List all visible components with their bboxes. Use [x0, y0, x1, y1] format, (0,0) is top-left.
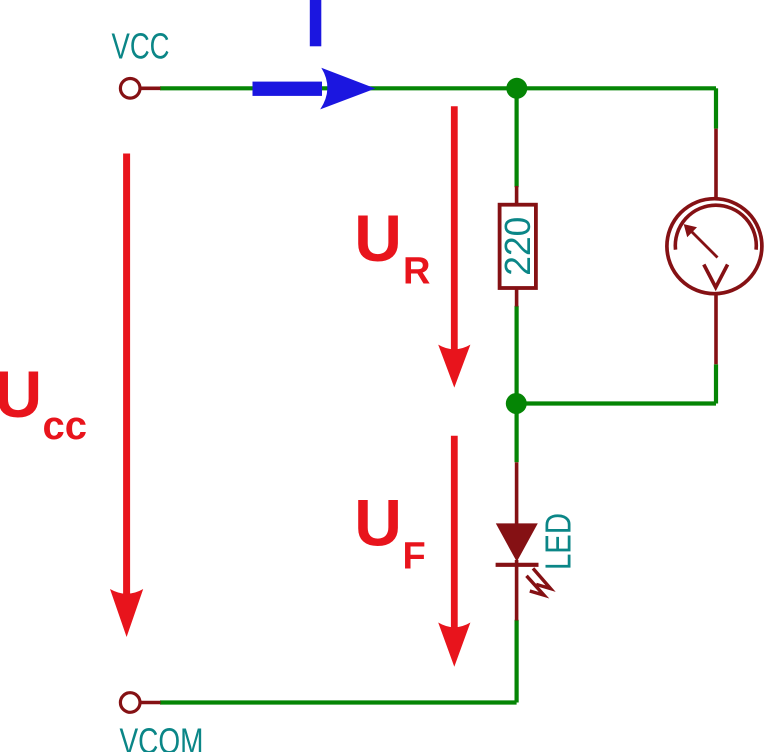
port VCOM pin	[140, 701, 161, 705]
wire mid junction to LED	[514, 404, 518, 463]
svg-text:U: U	[354, 201, 402, 275]
label I	[310, 0, 322, 46]
wire middle column junction to resistor	[514, 88, 518, 187]
voltage arrow U_F head	[438, 623, 470, 667]
wire bottom rail	[160, 700, 517, 704]
junction middle	[506, 393, 527, 414]
LED D1 triangle	[496, 523, 538, 561]
svg-text:220: 220	[497, 217, 538, 276]
svg-text:R: R	[403, 250, 430, 292]
port VCOM terminal circle	[120, 693, 140, 713]
port VCC terminal circle	[120, 79, 140, 99]
svg-text:F: F	[403, 535, 426, 577]
svg-text:cc: cc	[43, 404, 88, 448]
svg-text:VCC: VCC	[112, 26, 170, 67]
LED emission arrow 1	[533, 568, 551, 588]
voltmeter needle	[687, 227, 718, 258]
wire mid rail junction to voltmeter	[517, 401, 716, 405]
LED cathode bar	[496, 563, 539, 567]
LED emission arrow 2	[527, 576, 545, 595]
svg-text:U: U	[0, 357, 42, 431]
wire top rail	[160, 86, 716, 90]
wire resistor to mid junction	[514, 306, 518, 404]
svg-text:U: U	[354, 486, 402, 560]
voltage arrow U_F shaft	[451, 436, 458, 630]
current arrow I body	[253, 82, 323, 96]
wire voltmeter bottom to mid rail	[714, 364, 718, 403]
wire LED to bottom rail	[514, 620, 518, 703]
LED bottom pin	[515, 560, 519, 621]
voltmeter V1 body circle	[667, 199, 762, 294]
LED top pin	[515, 462, 519, 525]
resistor top pin	[515, 186, 519, 205]
voltage arrow U_R shaft	[451, 106, 458, 352]
voltage arrow U_R head	[438, 345, 470, 388]
voltmeter top pin	[714, 129, 718, 198]
voltmeter V letter	[704, 265, 728, 288]
voltage arrow U_cc head	[110, 589, 143, 637]
resistor bottom pin	[515, 288, 519, 307]
voltmeter bottom pin	[714, 295, 718, 365]
resistor R1 body	[500, 205, 536, 288]
voltage arrow U_cc shaft	[123, 154, 130, 598]
port VCC pin	[140, 87, 161, 91]
svg-text:LED: LED	[537, 513, 578, 570]
voltmeter needle arrowhead	[684, 224, 697, 237]
current arrow I head	[320, 68, 375, 110]
wire right drop to voltmeter	[714, 88, 718, 128]
voltmeter gauge arc	[675, 205, 756, 250]
junction top	[506, 78, 527, 99]
svg-text:VCOM: VCOM	[120, 721, 204, 752]
